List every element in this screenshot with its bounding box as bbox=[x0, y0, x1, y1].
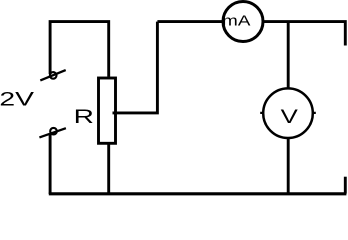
svg-text:2V: 2V bbox=[0, 88, 35, 110]
svg-text:mA: mA bbox=[222, 13, 250, 29]
svg-text:V: V bbox=[281, 106, 299, 128]
svg-text:R: R bbox=[74, 106, 94, 128]
